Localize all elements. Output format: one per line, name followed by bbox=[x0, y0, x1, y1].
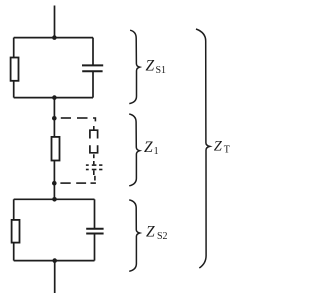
capacitor C1 bbox=[82, 65, 103, 71]
node junction top bbox=[52, 35, 57, 40]
brace ZS2 bbox=[129, 200, 139, 271]
wire bottom loop right edge upper bbox=[94, 199, 96, 228]
wire dashed box bottom bbox=[60, 176, 96, 183]
wire top terminal bbox=[54, 6, 56, 38]
wire middle series bbox=[53, 98, 55, 200]
svg-text:Z: Z bbox=[146, 57, 155, 74]
svg-text:1: 1 bbox=[154, 146, 159, 157]
svg-text:S2: S2 bbox=[157, 231, 168, 242]
wire bottom loop bottom edge bbox=[14, 260, 95, 262]
wire top loop bottom edge bbox=[14, 97, 93, 99]
svg-text:S1: S1 bbox=[156, 65, 167, 76]
wire bottom loop top edge bbox=[14, 198, 95, 200]
node junction bottom bbox=[52, 258, 57, 263]
resistor R2 bbox=[52, 137, 60, 161]
wire bottom terminal bbox=[54, 261, 56, 293]
node junction between ZS1 and Z1 bbox=[52, 95, 57, 100]
wire top loop right edge lower bbox=[92, 72, 94, 98]
wire dashed right upper lead bbox=[93, 126, 95, 130]
capacitor C3 dashed bbox=[86, 161, 103, 175]
svg-text:Z: Z bbox=[214, 139, 223, 155]
wire bottom loop left edge bbox=[13, 199, 15, 260]
capacitor C2 bbox=[86, 229, 103, 234]
resistor R1 bbox=[11, 58, 19, 81]
resistor R4 bbox=[12, 220, 20, 243]
wire bottom loop right edge lower bbox=[94, 234, 96, 260]
wire top loop top edge bbox=[14, 37, 93, 39]
brace ZT bbox=[196, 29, 210, 268]
node junction between Z1 and ZS2 bbox=[52, 197, 57, 202]
brace Z1 bbox=[129, 114, 139, 186]
wire top loop right edge upper bbox=[92, 38, 94, 65]
resistor R3 dashed bbox=[90, 130, 98, 153]
svg-text:T: T bbox=[224, 144, 230, 155]
wire top loop left edge bbox=[13, 38, 15, 98]
node B bbox=[52, 181, 57, 186]
node A bbox=[52, 116, 57, 121]
wire dashed between R3 and C3 bbox=[93, 154, 95, 158]
wire dashed box top bbox=[61, 118, 96, 121]
svg-text:Z: Z bbox=[144, 139, 153, 156]
svg-text:Z: Z bbox=[146, 223, 155, 240]
brace ZS1 bbox=[129, 30, 139, 103]
